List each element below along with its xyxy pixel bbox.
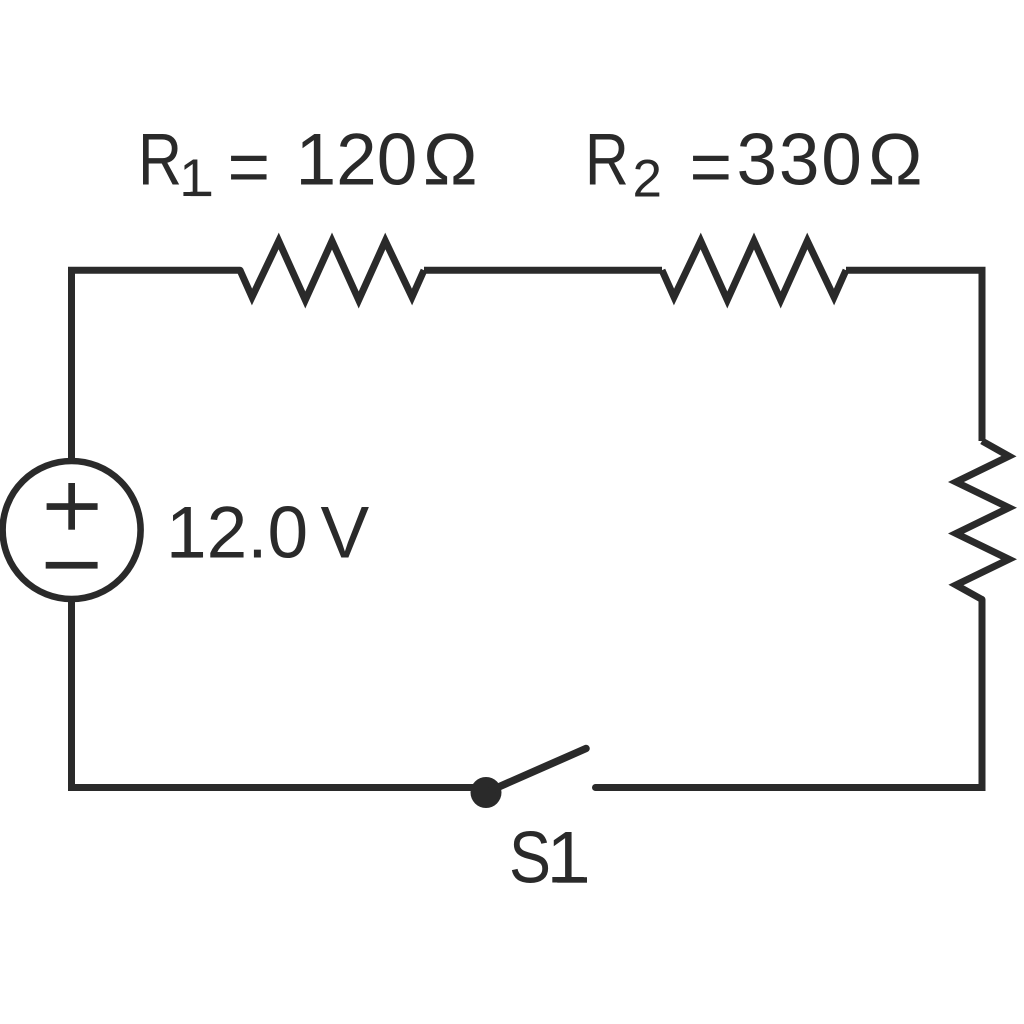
svg-text:330: 330 xyxy=(737,120,864,201)
wire: bottom left segment from source to switch pivot xyxy=(72,601,487,788)
svg-text:120: 120 xyxy=(296,120,418,201)
wire: left top segment from source to top-left corner xyxy=(72,270,241,459)
svg-text:Ω: Ω xyxy=(423,120,478,201)
svg-text:R: R xyxy=(585,120,629,201)
svg-text:V: V xyxy=(321,493,370,574)
voltage source minus sign xyxy=(46,562,98,569)
svg-text:2: 2 xyxy=(633,149,662,208)
svg-text:1: 1 xyxy=(179,149,208,208)
switch S1 arm (open) xyxy=(486,749,586,793)
svg-text:S: S xyxy=(509,818,551,899)
svg-text:Ω: Ω xyxy=(868,120,923,201)
wire: right bottom segment and bottom wire to switch right contact xyxy=(596,600,983,788)
switch S1 pivot dot xyxy=(471,777,502,808)
wire: top middle segment between R1 and R2 xyxy=(424,267,662,274)
svg-text:=: = xyxy=(228,127,271,208)
svg-text:R: R xyxy=(138,120,182,201)
resistor R3 (zigzag, right side vertical) xyxy=(956,441,1009,600)
voltage source plus sign xyxy=(47,483,98,530)
resistor R2 (zigzag, top right) xyxy=(662,241,846,300)
wire: top right corner down to R3 xyxy=(846,270,982,441)
voltage source V1 (circle) xyxy=(3,461,141,599)
svg-text:=: = xyxy=(690,127,733,208)
svg-text:1: 1 xyxy=(547,818,588,899)
resistor R1 (zigzag, top left) xyxy=(240,241,424,300)
svg-text:12.0: 12.0 xyxy=(166,493,308,574)
